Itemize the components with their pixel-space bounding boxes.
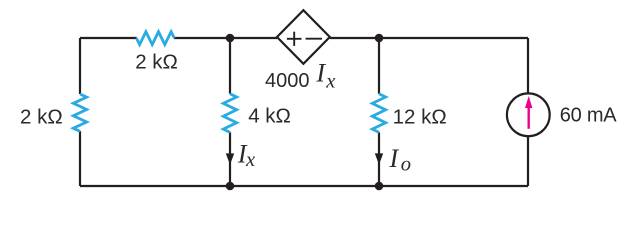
svg-text:4000: 4000 [265, 70, 310, 92]
svg-text:I: I [389, 144, 400, 173]
svg-text:I: I [315, 59, 326, 88]
svg-text:2 kΩ: 2 kΩ [20, 105, 63, 128]
svg-text:2 kΩ: 2 kΩ [135, 51, 178, 74]
svg-text:x: x [245, 149, 255, 171]
svg-text:4 kΩ: 4 kΩ [248, 105, 291, 128]
svg-text:12 kΩ: 12 kΩ [393, 105, 447, 128]
svg-text:x: x [325, 70, 335, 92]
svg-text:o: o [401, 153, 411, 175]
svg-text:60 mA: 60 mA [560, 105, 617, 127]
